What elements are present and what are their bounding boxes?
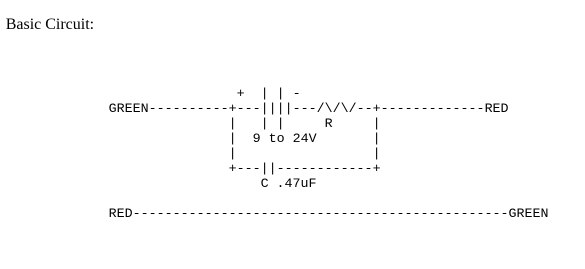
net label RED (second pair) [109,207,133,222]
wire [277,162,373,177]
wire (right branch) [373,132,381,147]
junction node (+) [229,102,237,117]
capacitor C designator and value .47uF [261,177,317,192]
resistor R designator [325,117,333,132]
wire (left branch) [229,132,237,147]
battery B1 plates cont. [261,117,285,132]
net label GREEN (tip wire) [109,102,149,117]
resistor R body [317,102,357,117]
junction node (+) [373,102,381,117]
battery B1 plates [261,102,293,117]
net label RED (ring wire) [485,102,509,117]
wire (left branch) [229,147,237,162]
junction node (+) [229,162,237,177]
wire [237,162,261,177]
battery B1 value 9 to 24V [253,132,317,147]
capacitor C plates [261,162,277,177]
wire [149,102,229,117]
wire [133,207,509,222]
title text [6,15,94,34]
wire [293,102,317,117]
wire (right branch) [373,117,381,132]
wire (left branch) [229,117,237,132]
junction node (+) [373,162,381,177]
wire [237,102,261,117]
wire [357,102,373,117]
wire [381,102,485,117]
battery B1 polarity markers + and - [237,87,301,102]
net label GREEN (second pair) [509,207,549,222]
wire (right branch) [373,147,381,162]
